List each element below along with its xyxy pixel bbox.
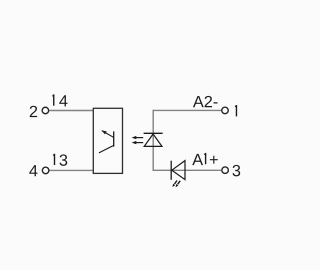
wire terminal 2 to box (49, 110, 93, 112)
transistor Q1 base bar (113, 131, 115, 146)
diode D1 cathode bar (144, 132, 163, 134)
LED D2 cathode bar (170, 161, 172, 180)
label 4 (29, 165, 37, 176)
label 2 (30, 106, 37, 117)
wire corner to terminal 3 (153, 169, 222, 171)
transistor Q1 collector (99, 145, 114, 153)
diode D1 triangle (144, 134, 162, 146)
LED D2 emission arrow 1 (172, 181, 177, 188)
wire terminal 1 to corner (153, 109, 222, 111)
terminal circle 4 (42, 167, 49, 174)
label 3 (232, 165, 240, 177)
transistor Q1 emitter with arrow (102, 130, 114, 137)
label A1+ : digit 1 drawn as plain stem (192, 154, 203, 165)
terminal circle 3 (222, 167, 229, 174)
terminal circle 2 (42, 107, 49, 114)
LED D2 emission arrow 2 (176, 181, 181, 188)
label 1 : drawn as plain stem (235, 105, 237, 116)
LED D2 triangle (172, 161, 185, 180)
label A2- (193, 96, 218, 107)
wire vertical segment (152, 110, 154, 171)
wire terminal 4 to box (49, 169, 93, 171)
optocoupler arrow lower (132, 141, 144, 144)
label 13 : digit 1 drawn as plain stem (53, 154, 55, 165)
terminal circle 1 (222, 107, 229, 114)
label 14 : digit 1 drawn as plain stem (52, 94, 54, 105)
box U1 (output switch) (93, 108, 122, 173)
optocoupler arrow upper (132, 136, 144, 139)
